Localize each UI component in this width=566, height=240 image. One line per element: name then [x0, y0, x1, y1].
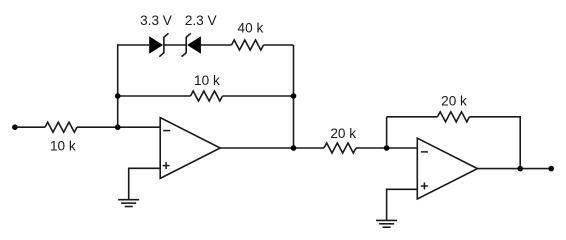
wire U2 feedback right segment and vertical: [470, 117, 521, 169]
svg-text:20 k: 20 k: [441, 94, 467, 109]
resistor R1 10 k input: [45, 122, 77, 132]
svg-text:10 k: 10 k: [50, 138, 76, 153]
node junction at inverting input of U1: [115, 124, 121, 130]
resistor R2 40 k: [232, 40, 264, 50]
wire between D1 and D2 cathodes: [164, 44, 186, 46]
node junction feedback at U2 output: [517, 166, 523, 172]
resistor R3 10 k feedback: [191, 91, 223, 101]
wire input terminal to R1: [15, 126, 45, 128]
wire R4 to op-amp U2 inverting input: [356, 147, 417, 149]
svg-text:10 k: 10 k: [194, 73, 220, 88]
wire R2 to right vertical branch: [264, 44, 294, 46]
wire U1 output to R4: [220, 147, 324, 149]
wire U2 output to output terminal: [478, 168, 552, 170]
output terminal node: [548, 166, 554, 172]
node junction at inverting input of U2: [384, 145, 390, 151]
U2 non-inverting input marker: [421, 183, 428, 190]
ground symbol for U1: [118, 200, 139, 207]
zener diode D1 3.3 V: [149, 33, 168, 56]
node junction left of R3: [115, 93, 121, 99]
resistor R5 20 k feedback: [438, 112, 470, 122]
svg-text:2.3 V: 2.3 V: [185, 13, 217, 28]
zener diode D2 2.3 V: [182, 33, 201, 56]
resistor R4 20 k series: [324, 143, 356, 153]
U1 non-inverting input marker: [163, 162, 170, 169]
U1 inverting input marker: [163, 130, 170, 132]
wire feedback branch with R3 left segment: [118, 95, 191, 97]
node junction right of R3: [291, 93, 297, 99]
wire U2 non-inverting input to ground: [387, 189, 418, 220]
wire left vertical branch: [118, 45, 150, 127]
wire R1 to op-amp U1 inverting input: [77, 126, 160, 128]
U2 inverting input marker: [421, 151, 428, 153]
op-amp U2: [417, 138, 477, 199]
ground symbol for U2: [376, 220, 397, 227]
wire D2 to R2: [201, 44, 232, 46]
op-amp U1: [160, 118, 220, 179]
svg-text:3.3 V: 3.3 V: [140, 13, 172, 28]
wire U2 feedback top left segment: [387, 116, 438, 118]
wire R3 right segment: [223, 95, 294, 97]
svg-text:40 k: 40 k: [238, 20, 264, 35]
wire U1 non-inverting input to ground: [129, 168, 161, 199]
svg-text:20 k: 20 k: [330, 126, 356, 141]
node junction U1 output: [291, 145, 297, 151]
input terminal node: [12, 124, 18, 130]
wire U2 feedback left vertical: [386, 117, 388, 148]
wire right vertical branch: [293, 45, 295, 148]
